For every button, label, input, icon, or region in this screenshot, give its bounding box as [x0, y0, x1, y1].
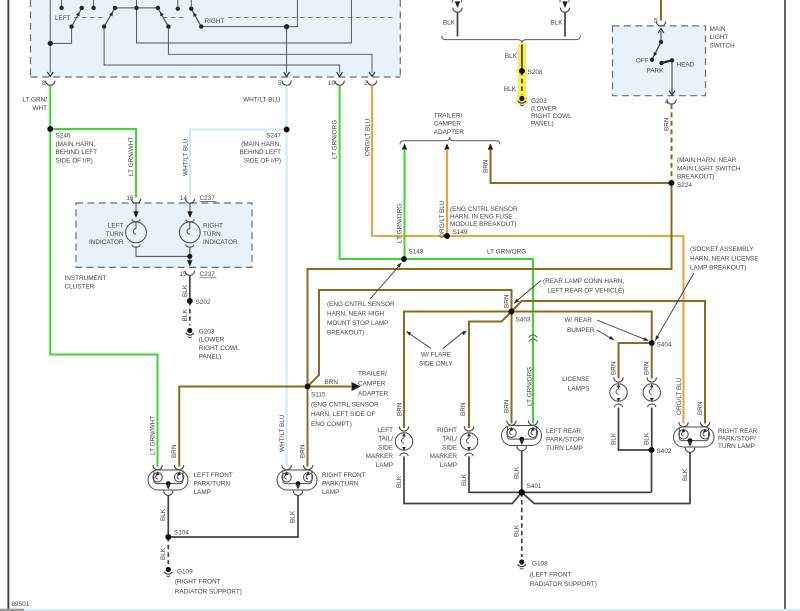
svg-text:S149: S149	[453, 229, 468, 236]
ground G203 (cluster)	[186, 328, 194, 338]
svg-text:BLK: BLK	[160, 547, 167, 560]
svg-text:W/ REAR: W/ REAR	[565, 317, 593, 324]
svg-text:SIDE OF I/P): SIDE OF I/P)	[56, 157, 93, 164]
svg-text:BRN: BRN	[504, 294, 511, 308]
svg-text:LT GRN/: LT GRN/	[22, 97, 47, 104]
cluster pin 15 exit arrow	[187, 260, 192, 267]
svg-text:PANEL): PANEL)	[199, 353, 222, 360]
PARK-HEAD blade	[662, 60, 673, 63]
svg-text:C237: C237	[200, 195, 216, 202]
splice S202	[187, 298, 193, 304]
pin 8 connector cup	[46, 81, 55, 86]
svg-text:BRN: BRN	[300, 444, 307, 458]
svg-text:G203: G203	[531, 98, 547, 105]
svg-text:LAMPS: LAMPS	[568, 386, 590, 393]
MLS common arrow up	[658, 29, 664, 33]
splice S404	[649, 340, 655, 346]
svg-text:TURN: TURN	[203, 231, 221, 238]
svg-text:S246: S246	[56, 133, 71, 140]
W/REAR leader to S404	[597, 320, 649, 341]
connector C237 bottom label	[200, 271, 217, 278]
wire BLK S202 to G203 dashed	[189, 301, 191, 326]
top BLK wire 2 cup	[560, 8, 569, 13]
svg-text:SIDE: SIDE	[378, 444, 393, 451]
MLS blade arrowhead	[652, 52, 657, 57]
splice S246	[47, 126, 53, 132]
svg-text:CAMPER: CAMPER	[434, 121, 462, 128]
wire LT GRN/ORG pin10 to S148	[340, 86, 404, 260]
svg-text:LAMP: LAMP	[376, 462, 393, 469]
svg-text:MAIN LIGHT SWITCH: MAIN LIGHT SWITCH	[677, 165, 741, 172]
svg-text:BEHIND LEFT: BEHIND LEFT	[56, 149, 98, 156]
wire LT GRN/ORG S148 to left rear lamp	[404, 259, 533, 424]
svg-text:ADAPTER: ADAPTER	[358, 390, 389, 397]
wire BRN S403 down to left rear lamp	[511, 312, 513, 424]
wire LT GRN/WHT S246 to cluster pin 16	[50, 129, 136, 198]
svg-text:ORG/LT BLU: ORG/LT BLU	[439, 200, 446, 238]
svg-text:(LEFT FRONT: (LEFT FRONT	[530, 571, 572, 578]
bottom scrollbar strip	[0, 609, 800, 611]
top BLK wire 2 cut marks	[560, 0, 569, 3]
svg-text:MARKER: MARKER	[366, 453, 394, 460]
wire BLK brace to S208	[521, 45, 523, 72]
svg-text:BLK: BLK	[396, 475, 403, 488]
svg-text:(MAIN HARN,: (MAIN HARN,	[56, 141, 96, 148]
wire WHT/LT BLU S247 down to right front lamp	[286, 130, 288, 467]
svg-text:S401: S401	[527, 483, 542, 490]
left front park/turn lamp	[148, 470, 188, 490]
MLS common wire	[660, 31, 662, 42]
svg-text:MAIN: MAIN	[710, 26, 726, 33]
ORG/LT BLU stripe	[374, 86, 682, 424]
splice S401	[519, 489, 525, 495]
wire BRN S224 to S115	[308, 183, 672, 387]
svg-text:LT GRN/WHT: LT GRN/WHT	[150, 416, 157, 455]
svg-text:INSTRUMENT: INSTRUMENT	[65, 275, 107, 282]
svg-text:(ENG CNTRL SENSOR: (ENG CNTRL SENSOR	[450, 206, 518, 213]
svg-text:BREAKOUT): BREAKOUT)	[327, 330, 364, 337]
svg-text:LT GRN/ORG: LT GRN/ORG	[527, 367, 534, 406]
cluster pin 14 cup	[185, 199, 194, 204]
svg-text:WHT/LT BLU: WHT/LT BLU	[183, 138, 190, 176]
svg-text:BLK: BLK	[443, 20, 456, 27]
pin 10 connector cup	[335, 81, 344, 86]
svg-text:RIGHT REAR: RIGHT REAR	[718, 428, 758, 435]
svg-text:BRN: BRN	[397, 402, 404, 416]
W/FLARE leader right	[443, 331, 467, 349]
svg-text:OFF: OFF	[636, 57, 649, 64]
turn signal switch contact dots	[48, 6, 290, 46]
svg-text:HARN, IN ENG FUSE: HARN, IN ENG FUSE	[450, 214, 513, 221]
ORG/LT BLU adapter stripe	[448, 149, 450, 234]
splice junction dots top layer	[47, 68, 674, 540]
right rear park/stop/turn lamp	[674, 427, 715, 447]
wire BLK right marker to S401	[469, 457, 652, 493]
svg-text:CAMPER: CAMPER	[358, 381, 386, 388]
svg-text:BLK: BLK	[505, 53, 518, 60]
svg-text:TURN: TURN	[106, 231, 124, 238]
HEAD contact dot	[670, 58, 674, 62]
adapter arrow 3	[488, 143, 493, 150]
splice S115	[305, 384, 311, 390]
svg-text:BLK: BLK	[160, 508, 167, 521]
svg-text:LIGHT: LIGHT	[710, 34, 729, 41]
svg-text:LEFT: LEFT	[377, 427, 393, 434]
svg-text:BLK: BLK	[610, 432, 617, 445]
svg-text:BRN: BRN	[697, 401, 704, 415]
svg-text:RIGHT: RIGHT	[205, 18, 225, 25]
svg-text:(MAIN HARN, NEAR: (MAIN HARN, NEAR	[677, 157, 737, 164]
svg-text:G108: G108	[532, 561, 548, 568]
wire BLK right rear lamp to S401	[522, 452, 690, 504]
svg-text:BRN: BRN	[483, 159, 490, 173]
svg-text:G203: G203	[199, 328, 215, 335]
OFF contact dot	[650, 58, 654, 62]
svg-text:BLK: BLK	[182, 309, 189, 322]
top BLK wire 1 cut marks	[453, 0, 462, 3]
svg-text:TAIL/: TAIL/	[378, 436, 393, 443]
wire BLK into brace 2	[564, 12, 566, 37]
MLS blade to OFF	[652, 42, 661, 60]
svg-text:(ENG CNTRL SENSOR: (ENG CNTRL SENSOR	[327, 301, 395, 308]
svg-text:RIGHT: RIGHT	[437, 427, 457, 434]
pin 10 exit arrow	[337, 72, 343, 76]
svg-text:RIGHT COWL: RIGHT COWL	[199, 345, 240, 352]
svg-text:INDICATOR: INDICATOR	[89, 239, 124, 246]
svg-text:WHT: WHT	[32, 105, 47, 112]
pin 5 exit arrow	[284, 72, 290, 76]
main light switch box	[613, 26, 706, 96]
svg-text:PARK/TURN: PARK/TURN	[322, 481, 359, 488]
leader to S403	[514, 281, 541, 304]
svg-text:CLUSTER: CLUSTER	[65, 284, 95, 291]
svg-text:ADAPTER: ADAPTER	[434, 129, 465, 136]
right tail/side marker lamp	[460, 426, 477, 456]
license lamp 2	[643, 377, 660, 407]
svg-text:BLK: BLK	[682, 468, 689, 481]
svg-text:LAMP: LAMP	[194, 489, 211, 496]
svg-text:BREAKOUT): BREAKOUT)	[677, 174, 714, 181]
svg-text:S402: S402	[657, 448, 672, 455]
PARK contact dot	[659, 61, 663, 65]
svg-text:PANEL): PANEL)	[531, 121, 554, 128]
svg-text:RIGHT: RIGHT	[203, 223, 223, 230]
svg-text:BLK: BLK	[461, 473, 468, 486]
cluster pin 16 cup	[131, 199, 140, 204]
svg-text:BRN: BRN	[664, 117, 671, 131]
wire BLK pin15 to S202	[189, 276, 191, 302]
splice S403	[509, 309, 515, 315]
top BLK wire 2 arrow	[562, 1, 567, 8]
wire BRN S403 to right marker lamp	[469, 312, 512, 429]
svg-text:ENG COMPT): ENG COMPT)	[311, 421, 352, 428]
svg-text:C237: C237	[200, 271, 216, 278]
svg-text:LAMP BREAKOUT): LAMP BREAKOUT)	[690, 265, 746, 272]
svg-text:HARN, NEAR HIGH: HARN, NEAR HIGH	[327, 311, 385, 318]
svg-text:SIDE: SIDE	[442, 444, 457, 451]
svg-text:SWITCH: SWITCH	[710, 42, 736, 49]
wire BRN S115 down to right front lamp	[307, 387, 309, 467]
pin 5 connector cup	[282, 81, 291, 86]
wire BLK left marker to S401	[404, 457, 522, 504]
svg-text:S247: S247	[266, 133, 281, 140]
svg-text:HARN, NEAR LICENSE: HARN, NEAR LICENSE	[690, 255, 759, 262]
wire BRN dashed pin4 to S224	[671, 104, 673, 183]
svg-text:S202: S202	[196, 299, 211, 306]
yellow highlight G203 ring	[516, 93, 527, 104]
turn signal switch blade arrows	[76, 11, 197, 17]
svg-text:ORG/LT BLU: ORG/LT BLU	[676, 377, 683, 415]
svg-text:LT GRN/WHT: LT GRN/WHT	[128, 137, 135, 176]
svg-text:BUMPER: BUMPER	[567, 327, 595, 334]
svg-text:ORG/LT BLU: ORG/LT BLU	[365, 118, 372, 156]
switch position dashed lines	[74, 17, 395, 19]
svg-text:BRN: BRN	[460, 402, 467, 416]
svg-text:WHT/LT BLU: WHT/LT BLU	[243, 97, 281, 104]
ground G203 (top)	[518, 96, 526, 106]
right turn indicator feed arrow	[187, 211, 192, 218]
wire BLK S208 to G203 dashed	[521, 71, 523, 95]
splice S149	[444, 233, 450, 239]
top BLK wire 1 cup	[453, 8, 462, 13]
svg-text:BLK: BLK	[514, 524, 521, 537]
left turn indicator bulb	[126, 204, 147, 257]
svg-text:LAMP: LAMP	[322, 489, 339, 496]
splice S224	[669, 180, 675, 186]
svg-text:SIDE ONLY: SIDE ONLY	[419, 361, 453, 368]
svg-text:RADIATOR SUPPORT): RADIATOR SUPPORT)	[175, 588, 242, 595]
W/FLARE leader left	[406, 331, 431, 349]
wire ORG/LT BLU adapter arrow2 to S149	[446, 149, 448, 236]
svg-text:LEFT FRONT: LEFT FRONT	[194, 472, 233, 479]
wire BRN S115 to trailer adapter arrow	[308, 386, 352, 388]
MLS output wire down	[671, 60, 673, 93]
pin 2 connector cup	[367, 81, 376, 86]
wire BRN adapter arrow3 to S224	[491, 149, 672, 183]
wire BLK S401 to G108 dashed	[521, 492, 523, 557]
svg-text:BLK: BLK	[514, 466, 521, 479]
svg-text:TAIL/: TAIL/	[442, 436, 457, 443]
left tail/side marker lamp	[395, 426, 412, 456]
svg-text:LT GRN/ORG: LT GRN/ORG	[332, 120, 339, 159]
svg-text:TURN LAMP: TURN LAMP	[718, 443, 755, 450]
wire BRN S403 riser to S115	[308, 290, 512, 387]
svg-text:BRN: BRN	[611, 361, 618, 375]
turn signal switch box	[31, 0, 401, 77]
svg-text:(SOCKET ASSEMBLY: (SOCKET ASSEMBLY	[690, 246, 754, 253]
trailer adapter arrow (right)	[352, 382, 361, 391]
svg-text:WHT/LT BLU: WHT/LT BLU	[279, 414, 286, 452]
svg-text:TURN LAMP: TURN LAMP	[546, 445, 583, 452]
svg-text:S404: S404	[657, 342, 672, 349]
svg-text:89501: 89501	[12, 601, 30, 608]
svg-text:BRN: BRN	[325, 379, 339, 386]
wire BLK S104 to right front lamp	[168, 495, 298, 537]
wire WHT/LT BLU pin5 to S247	[286, 86, 288, 130]
svg-text:W/ FLARE: W/ FLARE	[421, 352, 451, 359]
top BLK wire 1 arrow	[455, 1, 460, 8]
pin 2 exit arrow	[369, 72, 375, 76]
W/REAR leader to corner	[597, 330, 615, 340]
right turn indicator bulb	[179, 204, 200, 266]
svg-text:5: 5	[278, 80, 282, 87]
svg-text:PARK/TURN: PARK/TURN	[194, 481, 231, 488]
adapter arrow 2	[444, 143, 449, 150]
adapter brace	[400, 137, 500, 144]
svg-text:MOUNT STOP LAMP: MOUNT STOP LAMP	[327, 320, 388, 327]
MLS common dot	[659, 40, 663, 44]
svg-text:BEHIND LEFT: BEHIND LEFT	[239, 149, 281, 156]
svg-text:S148: S148	[409, 249, 424, 256]
wire BRN feed into main light switch	[660, 0, 662, 21]
svg-text:LEFT: LEFT	[108, 223, 124, 230]
wire WHT/LT BLU S247 to cluster pin 14	[190, 130, 287, 198]
svg-text:10: 10	[328, 80, 336, 87]
svg-text:INDICATOR: INDICATOR	[203, 239, 238, 246]
bottom-left scrollbar corner	[0, 609, 24, 611]
connector C237 top label	[200, 195, 217, 202]
svg-text:TRAILER/: TRAILER/	[358, 371, 387, 378]
svg-text:BRN: BRN	[504, 399, 511, 413]
svg-text:HEAD: HEAD	[677, 62, 695, 69]
svg-text:BRN: BRN	[171, 444, 178, 458]
left rear park/stop/turn lamp	[502, 426, 542, 446]
inline connector symbol on LT GRN/ORG	[529, 335, 538, 342]
svg-text:LAMP: LAMP	[440, 462, 457, 469]
wire LT GRN/ORG adapter arrow1 to S148	[404, 149, 406, 259]
svg-text:LEFT REAR OF VEHICLE): LEFT REAR OF VEHICLE)	[548, 288, 625, 295]
cluster pin 15 cup	[185, 271, 194, 276]
right front park/turn lamp	[277, 470, 317, 490]
wire BLK into brace 1	[457, 12, 459, 37]
svg-text:MARKER: MARKER	[430, 453, 458, 460]
svg-text:BRN: BRN	[644, 361, 651, 375]
wire BRN S115 to left front lamp	[179, 387, 307, 467]
cluster internal ground bus wire	[136, 255, 190, 257]
leader to S148	[370, 262, 402, 299]
wire BLK license1 to S402	[619, 408, 652, 451]
svg-text:PARK/STOP/: PARK/STOP/	[718, 436, 756, 443]
wire BLK license2 to S402	[651, 408, 653, 451]
wire LT GRN/WHT S246 down to front lamp	[50, 129, 157, 467]
MLS pin 5 cup	[656, 21, 665, 26]
svg-text:(REAR LAMP CONN HARN,: (REAR LAMP CONN HARN,	[543, 278, 624, 285]
svg-text:LICENSE: LICENSE	[562, 376, 589, 383]
svg-text:16: 16	[126, 195, 134, 202]
svg-text:MODULE BREAKOUT): MODULE BREAKOUT)	[450, 221, 516, 228]
wire BLK S104 to G109 dashed	[167, 537, 169, 564]
ground G108	[518, 559, 526, 569]
svg-text:RADIATOR SUPPORT): RADIATOR SUPPORT)	[530, 581, 597, 588]
svg-text:LT GRN/ORG: LT GRN/ORG	[397, 204, 404, 243]
svg-text:PARK: PARK	[647, 68, 665, 75]
right frame border	[784, 0, 786, 610]
svg-text:S403: S403	[516, 317, 531, 324]
left turn indicator feed arrow	[133, 211, 138, 218]
yellow highlight band	[518, 44, 526, 105]
svg-text:G109: G109	[177, 569, 193, 576]
leader to S404	[655, 273, 694, 341]
svg-text:LT GRN/ORG: LT GRN/ORG	[487, 249, 526, 256]
wire BLK left rear lamp to S401	[521, 451, 523, 493]
wire BLK left front lamp to S104	[167, 495, 169, 537]
left frame border	[7, 0, 9, 609]
splice S402	[649, 447, 655, 453]
wire ORG/LT BLU pin2 to S149 run	[372, 86, 684, 424]
wire BRN S404 to license lamps	[619, 343, 652, 379]
svg-text:BLK: BLK	[182, 284, 189, 297]
svg-text:BLK: BLK	[550, 20, 563, 27]
svg-text:LEFT REAR: LEFT REAR	[546, 428, 581, 435]
splice S104	[165, 534, 171, 540]
svg-text:(LOWER: (LOWER	[531, 106, 557, 113]
svg-text:BLK: BLK	[504, 86, 517, 93]
svg-text:S208: S208	[528, 69, 543, 76]
ground G109	[164, 567, 172, 577]
svg-text:BLK: BLK	[290, 510, 297, 523]
yellow highlight S208 ring	[517, 66, 528, 77]
wire BLK S402 down to S401 bus	[651, 450, 653, 492]
svg-text:(MAIN HARN,: (MAIN HARN,	[241, 141, 281, 148]
svg-text:RIGHT COWL: RIGHT COWL	[531, 113, 572, 120]
splice S208	[519, 68, 525, 74]
adapter arrow 1	[402, 143, 407, 150]
svg-text:(RIGHT FRONT: (RIGHT FRONT	[175, 579, 221, 586]
splice S247	[284, 127, 290, 133]
svg-text:(ENG CNTRL SENSOR: (ENG CNTRL SENSOR	[311, 401, 379, 408]
svg-text:LEFT: LEFT	[55, 15, 71, 22]
wire BRN S403 to right rear lamp	[512, 301, 706, 424]
svg-text:HARN, LEFT SIDE OF: HARN, LEFT SIDE OF	[311, 411, 376, 418]
svg-text:BLK: BLK	[644, 432, 651, 445]
MLS output arrow	[669, 91, 675, 95]
svg-text:(LOWER: (LOWER	[199, 337, 225, 344]
svg-text:SIDE OF I/P): SIDE OF I/P)	[244, 157, 281, 164]
cluster ground junction dot	[187, 254, 192, 259]
pin 8 exit arrow	[47, 72, 53, 76]
svg-text:S104: S104	[174, 530, 189, 537]
MLS pin 4 cup	[667, 99, 676, 104]
svg-text:PARK/STOP/: PARK/STOP/	[546, 437, 584, 444]
svg-text:S224: S224	[677, 182, 692, 189]
wire LT GRN/WHT pin8 to S246	[49, 86, 51, 130]
svg-text:TRAILER/: TRAILER/	[434, 112, 463, 119]
instrument cluster box	[76, 203, 252, 267]
svg-text:RIGHT FRONT: RIGHT FRONT	[322, 472, 366, 479]
turn signal switch internal wiring	[50, 0, 372, 73]
wire BRN S403 bus to S404	[404, 312, 652, 429]
splice S148	[401, 256, 407, 262]
brace joining BLK wires	[442, 36, 581, 43]
license lamp 1	[610, 377, 627, 407]
svg-text:S115: S115	[311, 392, 326, 399]
